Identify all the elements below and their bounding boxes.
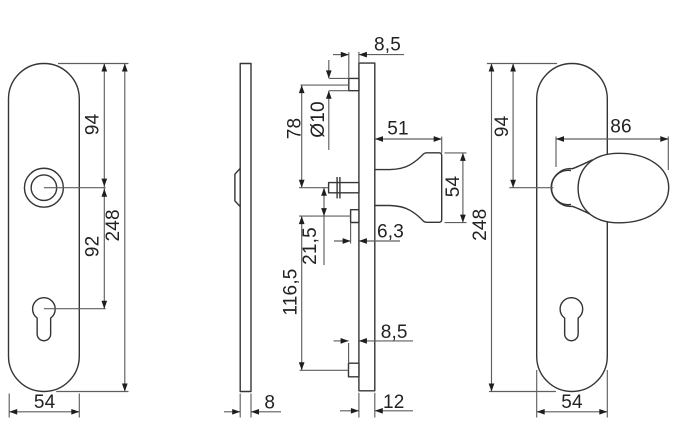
svg-text:54: 54 (561, 392, 583, 413)
dim 248 right (491, 64, 493, 392)
knob neck inner arc (551, 170, 571, 204)
svg-text:6,3: 6,3 (377, 222, 404, 243)
leader ring center (44, 187, 106, 189)
knob side profile (375, 153, 442, 223)
dim line 248 left (124, 64, 126, 392)
spindle shaft (329, 183, 359, 193)
svg-text:21,5: 21,5 (300, 227, 321, 265)
ext below right plate (536, 370, 538, 418)
top screw edge ext lines (329, 77, 349, 79)
keyhole left (euro profile) (33, 298, 56, 341)
svg-text:86: 86 (610, 117, 632, 138)
dim 54 right (537, 411, 608, 413)
svg-text:54: 54 (34, 392, 56, 413)
svg-text:8,5: 8,5 (374, 35, 401, 56)
ext 86 (555, 137, 557, 168)
cylinder tab (351, 210, 359, 223)
svg-text:54: 54 (443, 176, 464, 198)
svg-text:78: 78 (285, 118, 306, 140)
ext below bottom left (8, 394, 10, 418)
ext for bottom 8,5 (348, 343, 350, 363)
dim 51 (375, 138, 442, 140)
svg-text:94: 94 (492, 115, 513, 137)
ext bottom left view (56, 391, 128, 393)
ext top left view (58, 63, 129, 65)
dim line 94/92 (103, 64, 105, 309)
svg-text:51: 51 (387, 119, 409, 140)
dim 54 left (9, 411, 79, 413)
dim 54 knob (462, 153, 464, 223)
ext top right view (487, 63, 557, 65)
keyhole right (560, 298, 583, 341)
svg-text:8,5: 8,5 (381, 322, 408, 343)
plate right (stadium outline) (537, 64, 608, 392)
ext knob face up (441, 137, 443, 153)
svg-text:12: 12 (383, 392, 405, 413)
leader bottom right view (489, 391, 556, 393)
knob neck front view (551, 160, 592, 215)
dim 86 (556, 138, 668, 140)
dim 12 (340, 410, 359, 412)
top screw center leader (301, 84, 349, 86)
bottom screw center leader (300, 369, 349, 371)
knob egg front view (578, 153, 669, 223)
top screw (349, 78, 359, 90)
svg-text:116,5: 116,5 (281, 268, 302, 315)
dim 21,5 (323, 188, 325, 265)
dim 116,5 (301, 216, 303, 370)
dim Ø10 arrows (328, 60, 330, 78)
leader knob center right view (509, 187, 553, 189)
plate side outline (240, 64, 251, 392)
tab center leader (299, 215, 351, 217)
ext below tab (350, 223, 352, 244)
dim 78 (301, 85, 303, 188)
ext below side view (239, 394, 241, 418)
bottom screw (349, 363, 359, 377)
ring outer circle (24, 168, 63, 207)
svg-text:Ø10: Ø10 (308, 101, 329, 138)
svg-text:248: 248 (103, 209, 124, 241)
leader keyhole center (44, 308, 106, 310)
plate middle outline (359, 63, 375, 391)
ext for top 8,5 (348, 52, 350, 78)
svg-text:92: 92 (83, 236, 104, 258)
ext below middle plate (358, 393, 360, 418)
svg-text:94: 94 (83, 113, 104, 135)
svg-text:248: 248 (470, 209, 491, 241)
ring bump profile (235, 168, 240, 206)
dim 8,5 bottom (334, 340, 349, 342)
dim 6,3 (334, 240, 351, 242)
ext knob 54 (445, 152, 467, 154)
dim 94 right (512, 64, 514, 188)
ring inner circle (31, 175, 57, 201)
svg-text:8: 8 (264, 393, 275, 414)
spindle center leader (299, 187, 329, 189)
plate left (stadium outline) (9, 64, 80, 392)
spindle collar (336, 177, 338, 198)
dim 8 (224, 411, 240, 413)
dim 8,5 top (333, 54, 349, 56)
